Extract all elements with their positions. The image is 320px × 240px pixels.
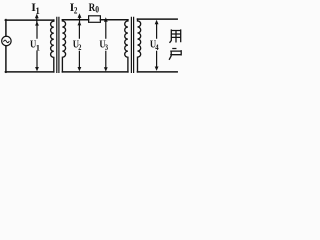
resistor R0 box xyxy=(89,16,101,22)
svg-text:0: 0 xyxy=(95,5,99,15)
AC source sine symbol xyxy=(4,40,9,43)
wire: right loop top xyxy=(138,18,178,20)
wire: left loop bottom xyxy=(5,71,53,73)
wire: middle loop bottom xyxy=(62,71,128,73)
transformer T1 secondary winding xyxy=(62,20,65,72)
wire: left loop top xyxy=(5,19,54,21)
wire: left loop left upper xyxy=(5,20,7,37)
svg-text:3: 3 xyxy=(105,42,108,52)
voltage arrow U2 xyxy=(78,24,80,68)
transformer T1 core xyxy=(57,17,59,72)
transformer T1 primary winding xyxy=(51,20,54,72)
voltage arrow U1 xyxy=(36,24,38,68)
wire: left loop left lower xyxy=(5,46,7,73)
svg-text:2: 2 xyxy=(78,42,81,52)
svg-text:2: 2 xyxy=(74,6,78,16)
transformer T2 core xyxy=(131,17,133,72)
wire: middle loop top right xyxy=(100,19,128,21)
load label char 用 xyxy=(170,30,181,42)
AC source G1 xyxy=(2,36,11,45)
transformer T2 primary winding xyxy=(125,20,128,72)
svg-text:1: 1 xyxy=(35,6,40,16)
wire: middle loop top left xyxy=(62,19,88,21)
current arrow I1 xyxy=(36,16,38,25)
wire: right loop bottom xyxy=(138,71,178,73)
current arrow I2 xyxy=(79,15,81,24)
transformer T2 secondary winding xyxy=(138,19,141,72)
voltage arrow U4 xyxy=(156,24,158,68)
voltage arrow U3 xyxy=(105,22,107,69)
svg-text:4: 4 xyxy=(155,42,159,52)
load label char 户 xyxy=(169,49,181,60)
svg-text:1: 1 xyxy=(36,42,40,52)
